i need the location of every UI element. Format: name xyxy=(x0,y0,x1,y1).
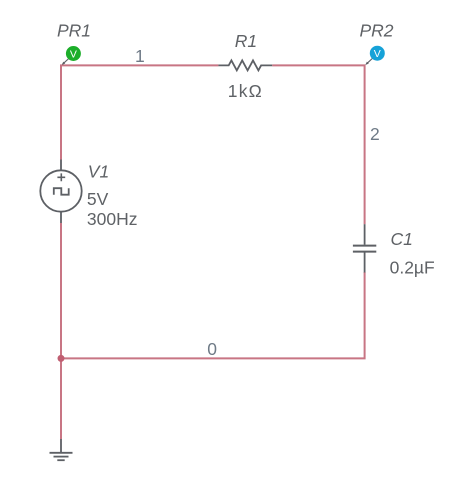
svg-text:V: V xyxy=(70,48,77,60)
capacitor C1 xyxy=(353,224,376,272)
svg-text:C1: C1 xyxy=(391,229,413,249)
svg-text:R1: R1 xyxy=(235,31,257,51)
svg-text:300Hz: 300Hz xyxy=(87,209,138,229)
ground xyxy=(50,439,73,460)
svg-text:5V: 5V xyxy=(87,189,109,209)
resistor R1 xyxy=(218,60,272,70)
svg-text:0.2µF: 0.2µF xyxy=(390,258,435,278)
wire: net 0 bottom horizontal and right vertical segment (capacitor bottom to junction) xyxy=(61,272,365,358)
svg-text:2: 2 xyxy=(370,124,380,144)
svg-text:PR1: PR1 xyxy=(57,21,91,41)
svg-text:V: V xyxy=(374,48,381,60)
probe PR2 (voltage, blue) xyxy=(365,46,384,65)
wire: net 2 top-right segment (resistor lead to corner at PR2 down to capacitor) xyxy=(272,65,364,224)
svg-text:1kΩ: 1kΩ xyxy=(228,81,263,101)
svg-text:V1: V1 xyxy=(88,161,109,181)
svg-text:1: 1 xyxy=(135,46,145,66)
wire: net 1 top-left segment (corner at PR1 to resistor lead) xyxy=(61,65,218,159)
probe PR1 (voltage, green) xyxy=(62,46,81,65)
voltage source V1 (square wave) xyxy=(40,160,81,224)
svg-text:PR2: PR2 xyxy=(360,20,394,40)
junction dot at net 0 xyxy=(58,355,65,362)
wire: net 0 left vertical segment (V1 bottom to junction to ground lead) xyxy=(60,223,62,439)
svg-text:0: 0 xyxy=(207,339,217,359)
